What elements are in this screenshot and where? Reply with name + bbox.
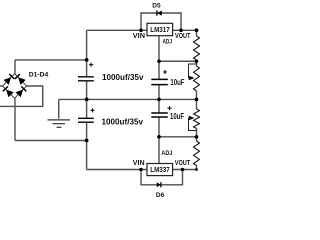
svg-text:10uF: 10uF: [170, 112, 184, 121]
svg-text:VOUT: VOUT: [175, 158, 191, 167]
svg-text:ADJ: ADJ: [161, 150, 172, 157]
svg-text:1000uf/35v: 1000uf/35v: [102, 72, 144, 82]
svg-text:LM317: LM317: [150, 27, 169, 34]
svg-text:ADJ: ADJ: [163, 38, 173, 45]
svg-text:VIN: VIN: [133, 31, 145, 40]
svg-text:D6: D6: [156, 192, 165, 199]
svg-text:D5: D5: [152, 3, 161, 10]
svg-text:10uF: 10uF: [170, 78, 184, 87]
svg-text:LM337: LM337: [150, 167, 169, 174]
svg-text:VIN: VIN: [133, 158, 145, 167]
svg-text:1000uf/35v: 1000uf/35v: [102, 117, 144, 127]
svg-text:D1-D4: D1-D4: [29, 71, 49, 78]
svg-text:VOUT: VOUT: [175, 31, 191, 40]
